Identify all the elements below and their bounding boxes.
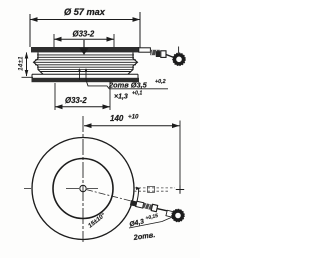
lug plate before ring (bottom view) [166,210,174,217]
svg-text:Ø33-2: Ø33-2 [65,96,87,105]
svg-text:×1,3: ×1,3 [114,94,128,101]
extension line Ø57 right [139,12,141,48]
outer circle (bottom view) [32,138,134,240]
svg-text:Ø33-2: Ø33-2 [73,30,95,39]
text 2 holes Ø3.5 [108,79,168,89]
rotated text 15±10° [87,212,107,230]
svg-text:+10: +10 [128,114,139,121]
dimension line Ø33 bottom [55,106,110,108]
lead bead (side view) [161,51,166,58]
body rib lines [34,55,137,72]
extension line Ø33 bottom right [109,81,111,110]
extension line Ø33 bottom left [54,83,56,110]
body outline right (side view) [128,53,138,75]
bottom pole plate (side view) [32,78,140,82]
svg-text:140: 140 [110,114,124,123]
diagonal centerline of bent lead [86,190,131,202]
extension line 140 right [179,121,181,194]
angular dimension arc 15° [134,187,141,206]
bottom flange top edge [32,74,138,78]
phantom straightened lead (dashed) [134,186,175,192]
body outline left (side view) [34,53,44,75]
svg-text:14±1: 14±1 [18,56,25,71]
horizontal center dashes [24,188,98,190]
leader arrows to 2 holes [78,68,109,89]
tick above lug [178,47,180,54]
hole cross at straightened lug [176,185,184,193]
text x1.3 depth [114,91,142,101]
lead strap on top plate (side view) [139,48,151,52]
ring terminal (side view) [173,53,186,66]
extension line Ø33 top left [53,34,55,47]
lead wire to lug (side view) [166,55,174,58]
svg-text:+0,15: +0,15 [145,213,159,222]
top pole plate (side view) [31,47,139,52]
dimension text 140+10 [110,114,139,124]
svg-text:+0,2: +0,2 [155,79,166,85]
lead braid (side view) [150,50,160,55]
leader line to lug hole [129,217,174,229]
lead crimp (side view) [156,51,160,57]
dimension text Ø57 max [64,7,106,17]
dimension text Ø33-2 top [73,30,95,39]
vertical centerline of bottom view [82,116,84,242]
dimension line Ø57 [30,19,140,21]
extension line Ø33 top right [113,34,115,47]
dimension line Ø33 top [54,38,114,40]
height dimension 14±1 [18,52,34,77]
svg-text:Ø 57 max: Ø 57 max [64,7,106,17]
center circle [80,185,86,191]
svg-text:+0,1: +0,1 [132,91,142,97]
ring terminal (bottom view) [172,209,185,222]
extension line Ø57 left [29,14,31,47]
surface finish mark on top face [80,40,89,55]
dimension line 140 [84,125,180,127]
dimension text Ø33-2 bottom [65,96,87,105]
bent lead braid (bottom view) [130,200,168,214]
svg-text:Ø4,3: Ø4,3 [129,218,145,228]
svg-text:2отв Ø3,5: 2отв Ø3,5 [108,81,148,90]
text 2 holes [132,230,156,242]
svg-text:2отв.: 2отв. [132,230,156,242]
text Ø4.3 with leader [128,213,159,228]
inner circle (bottom view) [53,159,113,219]
